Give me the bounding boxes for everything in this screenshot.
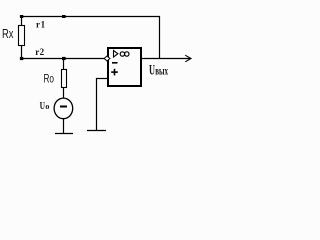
- svg-text:o: o: [45, 102, 49, 111]
- svg-text:2: 2: [40, 47, 45, 57]
- svg-text:1: 1: [41, 20, 46, 30]
- svg-text:U: U: [40, 100, 45, 112]
- svg-text:вых: вых: [155, 66, 168, 78]
- svg-text:Rx: Rx: [2, 26, 14, 41]
- svg-text:Ro: Ro: [44, 72, 55, 86]
- svg-text:r: r: [36, 20, 40, 30]
